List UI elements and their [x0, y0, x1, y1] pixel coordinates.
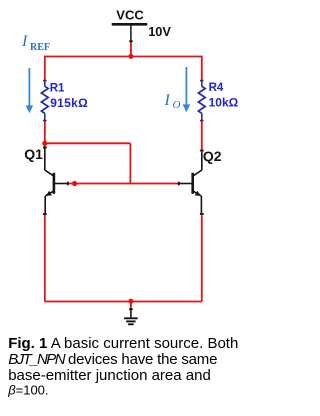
- ground: [124, 309, 138, 325]
- resistor R4: [198, 80, 205, 121]
- wire R4 to Q2 collector: [201, 121, 203, 150]
- wire rail to ground: [130, 302, 132, 309]
- current arrow IO: [185, 67, 187, 105]
- wire collector branch horizontal: [45, 142, 131, 144]
- wire Q1 base to rail: [69, 183, 178, 185]
- wire Q1 emitter down: [44, 215, 46, 302]
- wire bottom rail: [45, 301, 202, 303]
- power VCC pin end tick: [129, 40, 133, 42]
- transistor Q2: [178, 150, 204, 215]
- svg-text:10V: 10V: [148, 24, 171, 39]
- power VCC pin lead: [130, 26, 132, 42]
- svg-text:Q1: Q1: [24, 146, 43, 162]
- svg-text:Q2: Q2: [203, 148, 222, 164]
- svg-text:R1: R1: [50, 82, 65, 94]
- svg-text:R4: R4: [209, 82, 224, 94]
- svg-text:I: I: [21, 33, 28, 50]
- current arrow IREF: [28, 68, 30, 106]
- svg-text:10kΩ: 10kΩ: [209, 96, 239, 110]
- svg-text:I: I: [164, 92, 171, 109]
- svg-text:β=100.: β=100.: [7, 382, 48, 397]
- svg-text:Fig. 1 A basic current source.: Fig. 1 A basic current source. Both: [8, 335, 238, 352]
- svg-text:VCC: VCC: [116, 7, 144, 22]
- resistor R1: [41, 80, 48, 121]
- wire top rail to R1: [44, 56, 46, 80]
- junction on base rail: [72, 181, 77, 186]
- wire top rail to R4: [201, 56, 203, 80]
- junction at VCC on top rail: [128, 54, 133, 59]
- caption line 1: [7, 335, 238, 397]
- junction at ground: [128, 299, 133, 304]
- power VCC symbol bar: [112, 23, 148, 26]
- wire top rail: [45, 56, 202, 58]
- wire VCC to top rail: [130, 42, 132, 57]
- wire collector branch vertical to base rail: [129, 143, 131, 183]
- transistor Q1: [43, 147, 69, 215]
- svg-text:O: O: [173, 99, 181, 111]
- svg-text:REF: REF: [30, 42, 50, 53]
- svg-text:BJT_NPN devices have the same: BJT_NPN devices have the same: [8, 351, 217, 368]
- svg-text:915kΩ: 915kΩ: [50, 96, 88, 110]
- junction at Q1 collector node: [42, 141, 47, 146]
- wire Q2 emitter down: [201, 215, 203, 302]
- wire R1 to Q1 collector: [44, 121, 46, 147]
